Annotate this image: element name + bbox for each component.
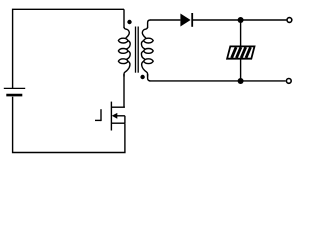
wire: battery bottom down and along bottom to MOSFET source <box>13 97 125 153</box>
terminal: top output <box>287 18 292 23</box>
node: junction dot bottom <box>238 78 244 84</box>
node: secondary polarity dot <box>140 75 144 79</box>
transformer T1 core <box>136 27 139 73</box>
wire: load to bottom junction <box>240 59 242 81</box>
wire: top junction down to load <box>240 20 242 46</box>
transistor Q1 (N-MOSFET) <box>95 102 125 131</box>
load RL (hatched box) <box>227 46 254 58</box>
wire: secondary bottom lead with corner to bottom rail <box>148 74 151 81</box>
wire: secondary top lead with corner to top rail <box>148 20 151 28</box>
source bar <box>111 122 125 124</box>
terminal: bottom output <box>286 79 291 84</box>
transformer T1 primary winding <box>118 27 130 77</box>
node: primary polarity dot <box>127 20 131 24</box>
wire: primary top lead <box>123 9 125 28</box>
battery B1 <box>4 88 25 95</box>
wire: primary bottom lead to MOSFET drain <box>123 74 125 107</box>
wire: secondary bottom rail to bottom output terminal <box>149 80 285 82</box>
gate bar <box>100 109 102 121</box>
transformer T1 secondary winding (mirror of primary) <box>141 27 153 77</box>
gate lead <box>95 119 101 121</box>
body-to-source vertical <box>124 116 126 123</box>
wire: battery top up left side and across top to primary <box>13 9 124 88</box>
node: junction dot top <box>238 17 244 23</box>
drain bar <box>111 106 125 108</box>
wire: secondary top to diode <box>150 19 180 21</box>
channel bar <box>110 102 112 131</box>
wire: diode to top output terminal <box>192 19 286 21</box>
diode D1 <box>180 13 192 27</box>
body bar with arrow <box>117 115 125 117</box>
